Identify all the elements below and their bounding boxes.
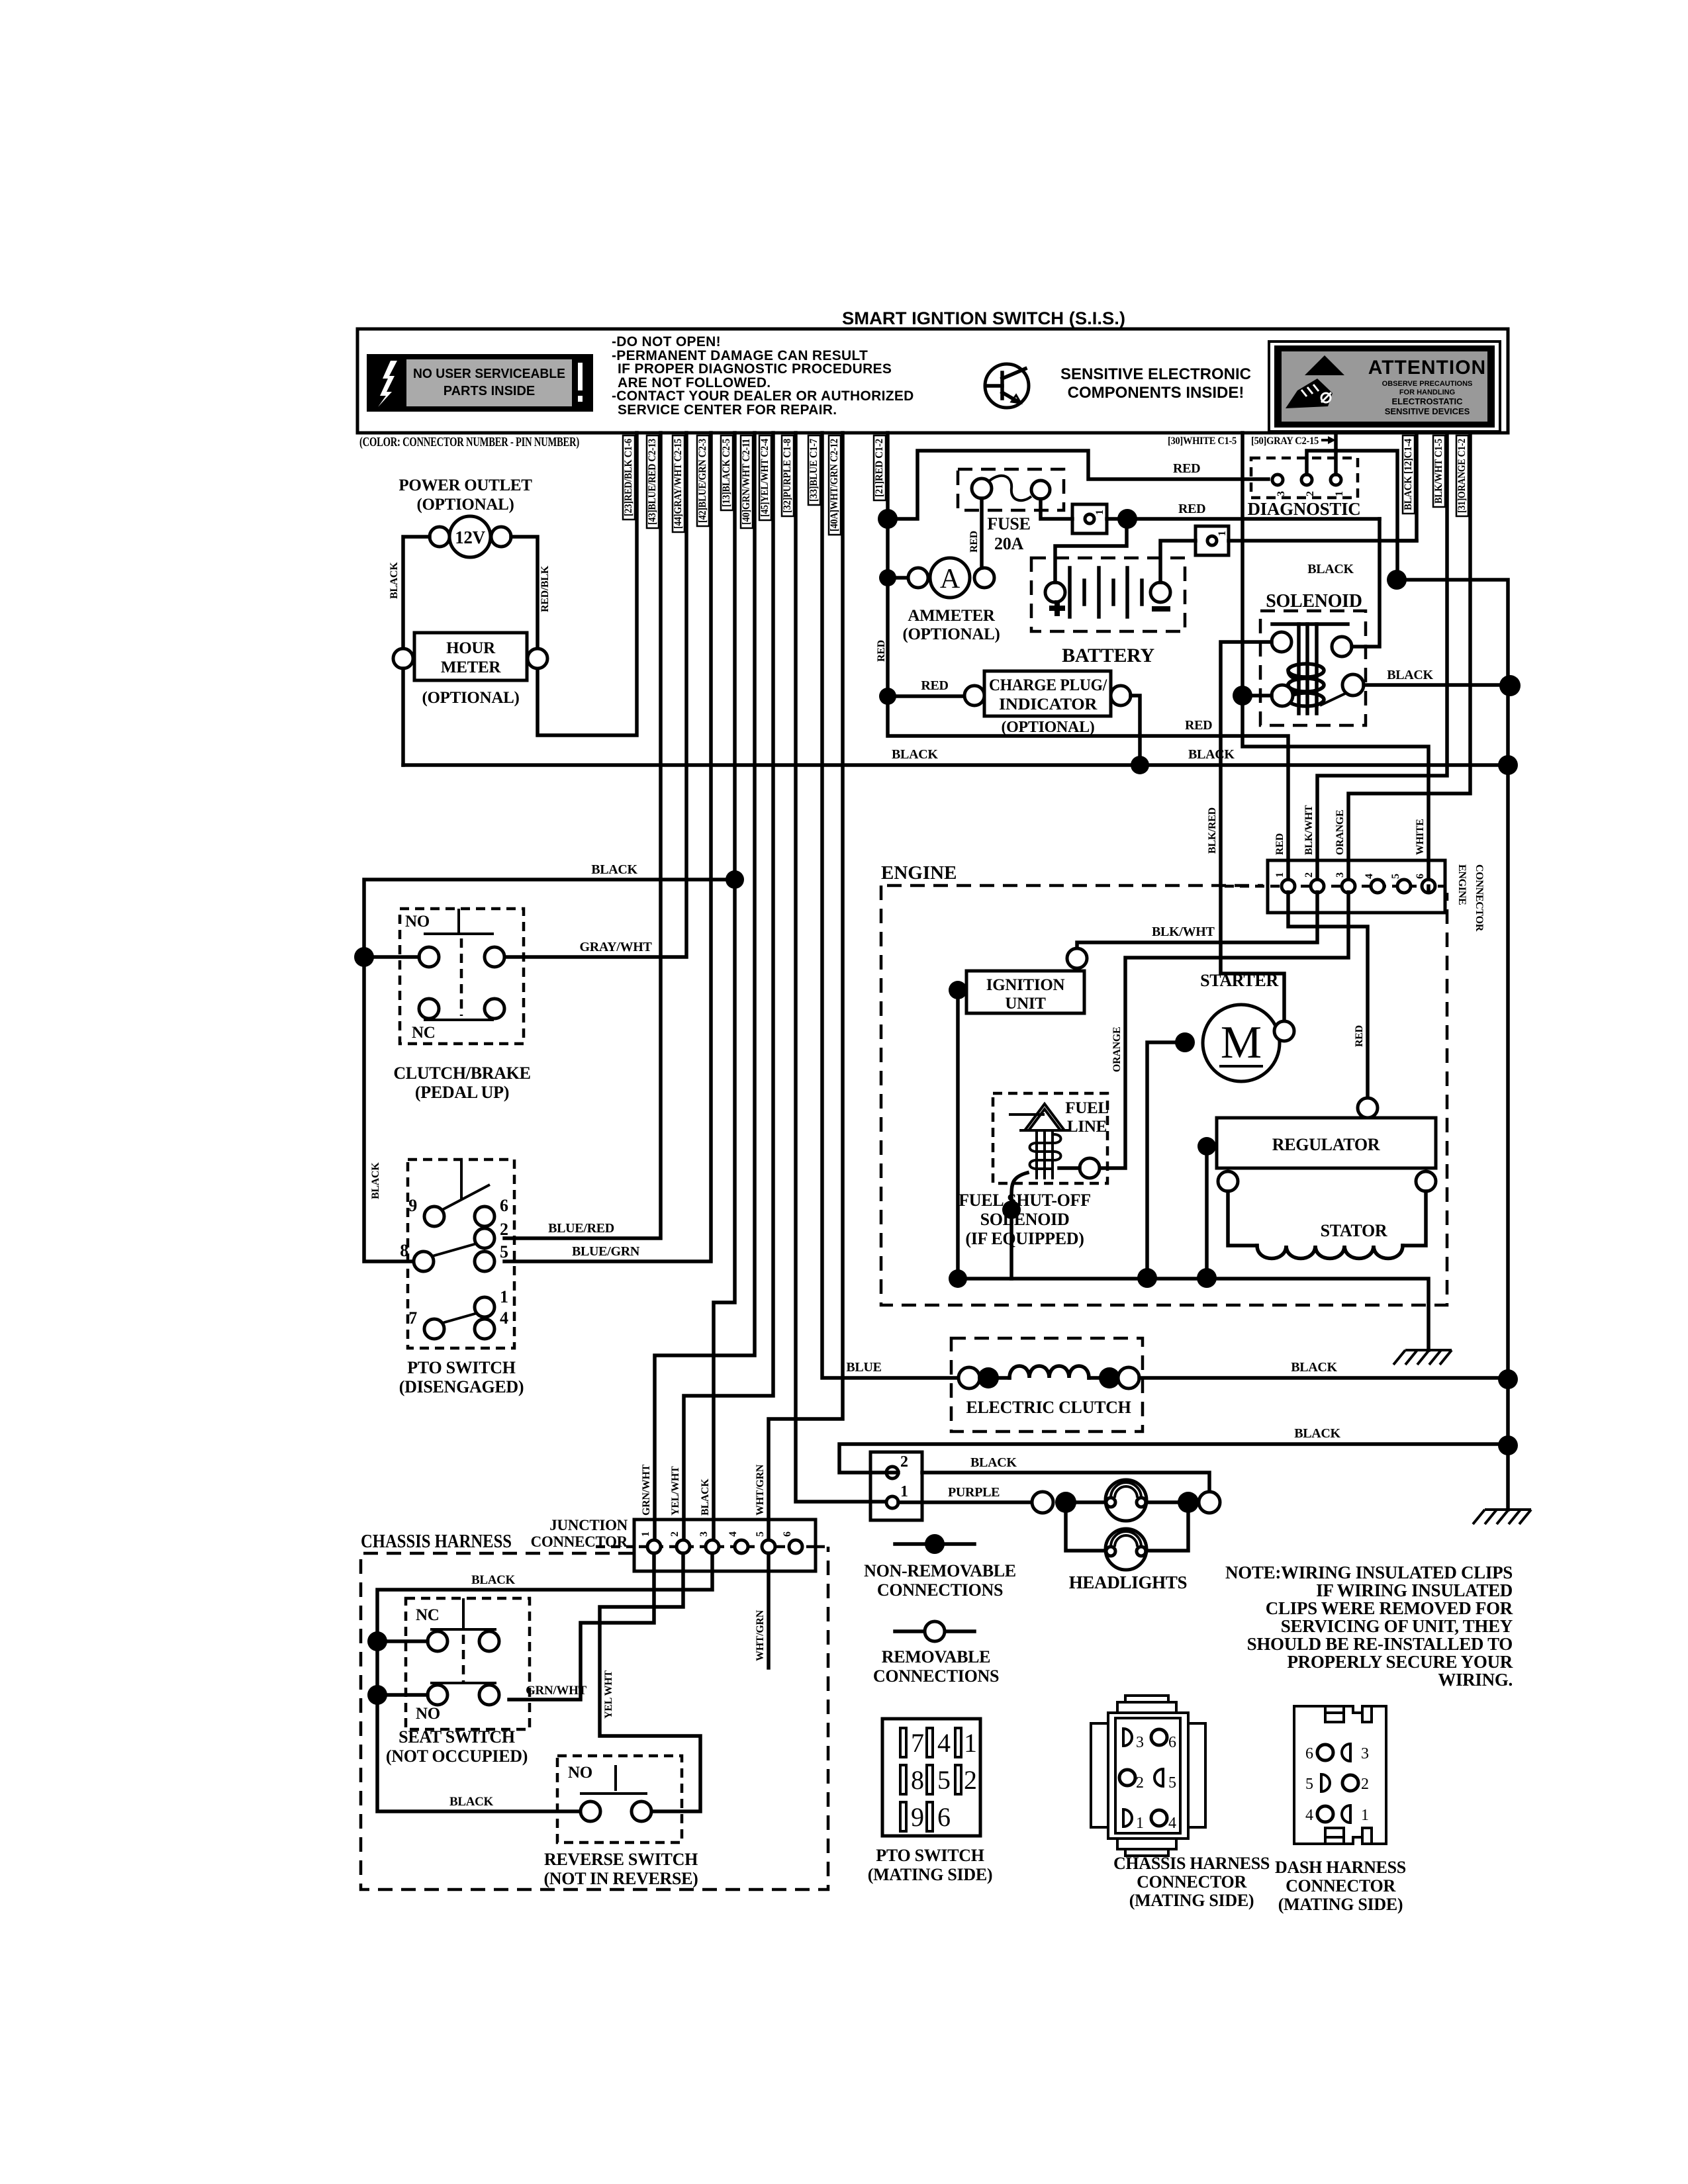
pto mating slot 1 bbox=[955, 1728, 961, 1757]
svg-text:INDICATOR: INDICATOR bbox=[999, 696, 1098, 713]
svg-text:NOTE:WIRING INSULATED CLIPS: NOTE:WIRING INSULATED CLIPS bbox=[1225, 1563, 1513, 1582]
svg-text:5: 5 bbox=[1168, 1774, 1176, 1792]
PTO arm 8-2 bbox=[432, 1244, 477, 1256]
center dashed bbox=[462, 1635, 465, 1684]
ground symbol right bus bbox=[1473, 1510, 1531, 1524]
svg-text:7: 7 bbox=[408, 1308, 417, 1328]
PTO pin 5 bbox=[475, 1251, 494, 1271]
headlight right open terminal bbox=[1199, 1492, 1220, 1513]
regulator bottom-left terminal bbox=[1218, 1171, 1238, 1191]
PTO pin 9 bbox=[424, 1206, 444, 1226]
seat switch NO contacts bbox=[428, 1685, 447, 1705]
wire lamp2 branch bbox=[1066, 1502, 1107, 1551]
wire ignition dot to ground bus bbox=[956, 990, 960, 1279]
svg-text:CHASSIS HARNESS: CHASSIS HARNESS bbox=[1113, 1854, 1270, 1873]
fuse left circle bbox=[972, 478, 992, 498]
junction pin 6 bbox=[789, 1540, 802, 1553]
clutch coil bbox=[999, 1376, 1009, 1380]
svg-text:3: 3 bbox=[1335, 872, 1346, 878]
svg-text:BATTERY: BATTERY bbox=[1062, 645, 1154, 666]
transistor symbol bbox=[985, 364, 1029, 408]
svg-text:3: 3 bbox=[698, 1531, 710, 1537]
svg-text:2: 2 bbox=[964, 1765, 977, 1795]
svg-text:5: 5 bbox=[1305, 1776, 1313, 1793]
wire clutch to right bus / BLACK bbox=[1139, 1376, 1508, 1380]
wire w8 PURPLE C1-8 bbox=[796, 433, 887, 1502]
svg-text:PTO SWITCH: PTO SWITCH bbox=[407, 1358, 515, 1377]
svg-text:2: 2 bbox=[1136, 1774, 1144, 1792]
wire fuse right down to red rail bbox=[1041, 499, 1072, 519]
wire dot to solenoid bottom-left bbox=[1243, 694, 1272, 698]
svg-text:HEADLIGHTS: HEADLIGHTS bbox=[1069, 1572, 1188, 1592]
svg-text:(COLOR: CONNECTOR NUMBER - PIN: (COLOR: CONNECTOR NUMBER - PIN NUMBER) bbox=[359, 435, 579, 449]
svg-text:(OPTIONAL): (OPTIONAL) bbox=[416, 496, 514, 514]
svg-text:ATTENTION: ATTENTION bbox=[1368, 357, 1486, 379]
svg-text:LINE: LINE bbox=[1067, 1118, 1107, 1136]
svg-text:CLUTCH/BRAKE: CLUTCH/BRAKE bbox=[393, 1064, 530, 1083]
svg-text:REMOVABLE: REMOVABLE bbox=[882, 1647, 990, 1666]
svg-text:[32]PURPLE C1-8: [32]PURPLE C1-8 bbox=[782, 439, 793, 513]
svg-text:SEAT SWITCH: SEAT SWITCH bbox=[399, 1727, 515, 1747]
svg-text:IF WIRING INSULATED: IF WIRING INSULATED bbox=[1316, 1580, 1513, 1600]
clutch left open terminal bbox=[959, 1367, 980, 1388]
svg-text:FUEL SHUT-OFF: FUEL SHUT-OFF bbox=[959, 1191, 1091, 1210]
svg-text:[43]BLUE/RED C2-13: [43]BLUE/RED C2-13 bbox=[647, 439, 658, 525]
headlight left open terminal bbox=[1032, 1492, 1053, 1513]
svg-text:(IF EQUIPPED): (IF EQUIPPED) bbox=[965, 1229, 1084, 1248]
reverse switch contacts bbox=[581, 1801, 600, 1821]
headlight connector pin 1 bbox=[886, 1496, 898, 1508]
warning text block bbox=[612, 334, 914, 418]
svg-text:(MATING SIDE): (MATING SIDE) bbox=[1129, 1891, 1254, 1910]
svg-text:AMMETER: AMMETER bbox=[908, 607, 995, 625]
clutch/brake NC contacts bbox=[419, 999, 439, 1019]
wire w6 GRN/WHT C2-11 bbox=[655, 433, 755, 1540]
svg-text:REGULATOR: REGULATOR bbox=[1272, 1135, 1380, 1154]
wire w9 BLUE C1-7 bbox=[822, 433, 959, 1378]
wire starter left to ground bus bbox=[1147, 1042, 1185, 1278]
battery plus terminal bbox=[1045, 582, 1065, 602]
svg-text:YEL/WHT: YEL/WHT bbox=[670, 1466, 681, 1516]
svg-text:[33]BLUE C1-7: [33]BLUE C1-7 bbox=[808, 439, 820, 502]
junction dot w11 RED upper bbox=[878, 509, 898, 529]
pto mating slot 7 bbox=[900, 1728, 906, 1757]
wire engine pin3 ORANGE to fuel solenoid bbox=[1100, 892, 1348, 1168]
svg-text:NO: NO bbox=[416, 1705, 440, 1723]
svg-text:STATOR: STATOR bbox=[1321, 1221, 1387, 1240]
headlight left dot bbox=[1055, 1492, 1076, 1513]
svg-text:BLACK: BLACK bbox=[700, 1479, 711, 1516]
charge plug left terminal bbox=[964, 686, 984, 705]
diagnostic pin 2 bbox=[1301, 475, 1312, 485]
svg-text:FUEL: FUEL bbox=[1065, 1099, 1108, 1117]
solenoid top-left terminal bbox=[1272, 632, 1291, 652]
svg-text:5: 5 bbox=[500, 1242, 508, 1261]
svg-text:(DISENGAGED): (DISENGAGED) bbox=[399, 1377, 524, 1396]
reverse switch plunger bbox=[614, 1765, 617, 1791]
svg-text:SOLENOID: SOLENOID bbox=[1266, 591, 1362, 612]
svg-text:[31]ORANGE C1-2: [31]ORANGE C1-2 bbox=[1456, 439, 1468, 513]
ammeter circle A bbox=[930, 558, 970, 598]
junction pin 5 bbox=[762, 1540, 775, 1553]
fuel solenoid left dot bbox=[1002, 1201, 1021, 1219]
dash harness connector drawing bbox=[1294, 1706, 1386, 1844]
wire junction pin2 YEL/WHT to reverse bbox=[600, 1553, 700, 1811]
wire junction pin5 WHT/GRN stub bbox=[767, 1553, 771, 1668]
black wire to right bus bbox=[1397, 580, 1508, 1510]
battery minus terminal bbox=[1150, 582, 1170, 602]
right wire labels bbox=[1403, 435, 1468, 516]
svg-text:ENGINE: ENGINE bbox=[1456, 864, 1468, 905]
wire power outlet left / BLACK bbox=[403, 537, 430, 649]
svg-text:20A: 20A bbox=[994, 534, 1023, 553]
svg-text:YEL WHT: YEL WHT bbox=[603, 1670, 614, 1719]
wire pin2 black to headlights bbox=[922, 1473, 1209, 1491]
svg-text:CLIPS WERE REMOVED FOR: CLIPS WERE REMOVED FOR bbox=[1266, 1598, 1513, 1618]
svg-text:(MATING SIDE): (MATING SIDE) bbox=[868, 1865, 992, 1884]
svg-text:4: 4 bbox=[1168, 1815, 1176, 1832]
junction dot w11 RED ammeter bbox=[879, 569, 896, 586]
fuse right circle bbox=[1031, 480, 1050, 499]
chassis connector pins bbox=[1119, 1729, 1176, 1832]
svg-text:SMART IGNTION SWITCH (S.I.S.): SMART IGNTION SWITCH (S.I.S.) bbox=[842, 308, 1125, 328]
wire w10 WHT/GRN C2-12 bbox=[769, 433, 843, 1540]
svg-text:PURPLE: PURPLE bbox=[948, 1485, 1000, 1500]
clutch/brake left dot bbox=[354, 947, 374, 967]
svg-text:POWER OUTLET: POWER OUTLET bbox=[399, 477, 532, 494]
PTO pin 6 bbox=[475, 1206, 494, 1226]
stator winding bbox=[1228, 1191, 1257, 1246]
svg-text:FUSE: FUSE bbox=[987, 514, 1030, 533]
svg-text:ORANGE: ORANGE bbox=[1111, 1027, 1123, 1072]
electric clutch dashed box bbox=[951, 1338, 1143, 1432]
junction dot w5/black bbox=[726, 870, 744, 889]
dash connector pins bbox=[1305, 1744, 1369, 1824]
regulator bottom-right terminal bbox=[1416, 1171, 1436, 1191]
svg-text:WHITE: WHITE bbox=[1415, 819, 1426, 855]
svg-text:2: 2 bbox=[900, 1453, 908, 1471]
clutch/brake NO plunger bbox=[457, 909, 460, 934]
svg-text:NO USER SERVICEABLE: NO USER SERVICEABLE bbox=[413, 367, 565, 381]
headlight connector box bbox=[870, 1452, 922, 1520]
solenoid internals bbox=[1272, 624, 1348, 713]
svg-text:NON-REMOVABLE: NON-REMOVABLE bbox=[864, 1561, 1016, 1580]
removable connector square 1 bbox=[1072, 504, 1107, 533]
ground symbol engine bbox=[1393, 1350, 1452, 1365]
junction connector box bbox=[634, 1520, 816, 1571]
svg-text:6: 6 bbox=[782, 1531, 793, 1537]
wire to junction dot bbox=[1107, 517, 1380, 521]
svg-text:ELECTRIC CLUTCH: ELECTRIC CLUTCH bbox=[966, 1398, 1131, 1417]
PTO switch dashed box bbox=[408, 1160, 514, 1348]
pto mating slot 8 bbox=[900, 1765, 906, 1794]
charge plug box bbox=[984, 671, 1111, 716]
svg-text:4: 4 bbox=[937, 1728, 951, 1758]
wire w1 RED/BLK C1-6 bbox=[538, 433, 637, 735]
starter right terminal bbox=[1274, 1021, 1294, 1041]
svg-text:5: 5 bbox=[1390, 874, 1401, 879]
fuel line symbol bbox=[1009, 1104, 1070, 1179]
ammeter left terminal bbox=[908, 568, 928, 588]
wire w3 GRAY/WHT C2-15 bbox=[504, 433, 686, 957]
svg-text:1: 1 bbox=[1094, 510, 1105, 515]
PTO switch mating side box bbox=[882, 1719, 980, 1836]
svg-text:4: 4 bbox=[1364, 874, 1375, 879]
svg-text:NO: NO bbox=[405, 913, 430, 931]
clutch/brake dashed box bbox=[400, 909, 524, 1044]
wire solenoid top-right to red rail bbox=[1352, 519, 1380, 647]
svg-text:2: 2 bbox=[500, 1220, 508, 1239]
wire w11 RED C1-2 bbox=[888, 433, 1288, 880]
svg-text:ORANGE: ORANGE bbox=[1335, 810, 1346, 855]
svg-text:DASH HARNESS: DASH HARNESS bbox=[1275, 1858, 1406, 1877]
regulator box bbox=[1217, 1118, 1436, 1168]
diagnostic dashed box bbox=[1251, 458, 1358, 498]
svg-text:5: 5 bbox=[937, 1765, 951, 1795]
svg-text:IF PROPER DIAGNOSTIC PROCEDURE: IF PROPER DIAGNOSTIC PROCEDURES bbox=[618, 361, 892, 377]
svg-text:STARTER: STARTER bbox=[1200, 971, 1278, 990]
clutch right dot bbox=[1099, 1367, 1120, 1388]
solenoid bottom-left terminal bbox=[1272, 685, 1293, 706]
starter motor circle bbox=[1203, 1005, 1280, 1081]
clutch right open terminal bbox=[1118, 1367, 1139, 1388]
wire engine pin1 RED to regulator bbox=[1288, 892, 1368, 1098]
svg-text:1: 1 bbox=[1334, 491, 1345, 496]
pto mating slot 5 bbox=[927, 1765, 933, 1794]
svg-text:NC: NC bbox=[412, 1024, 436, 1042]
svg-text:UNIT: UNIT bbox=[1005, 995, 1046, 1013]
pto mating slot 2 bbox=[955, 1765, 961, 1794]
engine connector pins bbox=[1274, 872, 1435, 893]
svg-text:2: 2 bbox=[1303, 872, 1315, 878]
svg-text:BLACK: BLACK bbox=[591, 862, 637, 877]
wire fuse left to ammeter / RED bbox=[980, 498, 984, 568]
svg-text:CONNECTOR: CONNECTOR bbox=[1474, 864, 1485, 932]
svg-text:(MATING SIDE): (MATING SIDE) bbox=[1278, 1895, 1403, 1914]
wire to black jog bbox=[1229, 433, 1417, 541]
svg-text:[21]RED C1-2: [21]RED C1-2 bbox=[874, 439, 885, 497]
wire hour meter left down to black bus bbox=[401, 668, 405, 765]
junction pin 4 bbox=[735, 1540, 748, 1553]
PTO pin 7 bbox=[424, 1319, 444, 1339]
svg-text:1: 1 bbox=[1274, 872, 1286, 878]
svg-text:[45]YEL/WHT C2-4: [45]YEL/WHT C2-4 bbox=[759, 439, 771, 517]
svg-text:BLACK: BLACK bbox=[389, 562, 400, 599]
regulator top terminal bbox=[1358, 1098, 1378, 1118]
legend non-removable bbox=[895, 1542, 974, 1546]
solenoid switch arm bbox=[1320, 693, 1346, 705]
power outlet 12V circle bbox=[449, 516, 491, 557]
svg-text:COMPONENTS INSIDE!: COMPONENTS INSIDE! bbox=[1068, 384, 1244, 402]
svg-text:9: 9 bbox=[911, 1802, 924, 1832]
solenoid bottom-right terminal bbox=[1342, 674, 1364, 696]
center dashed line bbox=[460, 938, 463, 1016]
svg-text:[50]GRAY C2-15: [50]GRAY C2-15 bbox=[1251, 435, 1319, 447]
S.I.S. outer box bbox=[357, 329, 1508, 433]
svg-text:RED: RED bbox=[1173, 461, 1200, 476]
PTO pin 8 bbox=[414, 1251, 434, 1271]
svg-text:CHASSIS HARNESS: CHASSIS HARNESS bbox=[361, 1531, 512, 1552]
svg-text:RED: RED bbox=[1185, 718, 1212, 733]
PTO pin 2 bbox=[475, 1228, 494, 1248]
svg-text:-DO NOT OPEN!: -DO NOT OPEN! bbox=[612, 334, 721, 349]
battery plates bbox=[1070, 568, 1142, 617]
engine connector dashed line through pins bbox=[1225, 885, 1445, 888]
svg-text:BLACK: BLACK bbox=[370, 1162, 381, 1199]
svg-text:ENGINE: ENGINE bbox=[881, 862, 957, 884]
wire regulator dot to ground bus bbox=[1205, 1146, 1209, 1278]
svg-text:(OPTIONAL): (OPTIONAL) bbox=[1001, 719, 1094, 736]
wire power outlet right / RED/BLK bbox=[511, 537, 538, 649]
wire w5 BLACK C2-5 upper bbox=[714, 433, 735, 1540]
svg-text:5: 5 bbox=[755, 1531, 766, 1537]
svg-text:WHT/GRN: WHT/GRN bbox=[755, 1610, 766, 1661]
fuel solenoid right terminal bbox=[1080, 1158, 1100, 1178]
svg-text:1: 1 bbox=[900, 1483, 908, 1500]
svg-text:2: 2 bbox=[669, 1531, 680, 1537]
svg-text:GRAY/WHT: GRAY/WHT bbox=[579, 940, 652, 954]
svg-text:SERVICE CENTER FOR REPAIR.: SERVICE CENTER FOR REPAIR. bbox=[618, 402, 837, 418]
svg-text:GRN/WHT: GRN/WHT bbox=[526, 1684, 586, 1698]
svg-text:4: 4 bbox=[500, 1308, 508, 1328]
chassis harness dashed box bbox=[361, 1547, 828, 1889]
svg-text:BLK/WHT: BLK/WHT bbox=[1152, 925, 1215, 939]
wire bundle labels bbox=[623, 435, 886, 535]
svg-text:8: 8 bbox=[400, 1241, 408, 1260]
PTO pin 1 bbox=[475, 1297, 494, 1317]
svg-text:JUNCTION: JUNCTION bbox=[549, 1517, 628, 1533]
wire BLK/WHT C1-5 from box to engine pin2 bbox=[1317, 433, 1447, 880]
svg-text:RED: RED bbox=[876, 640, 887, 662]
svg-text:6: 6 bbox=[1415, 874, 1426, 879]
PTO pin 4 bbox=[475, 1319, 494, 1339]
svg-text:4: 4 bbox=[727, 1531, 739, 1537]
svg-text:[13]BLACK C2-5: [13]BLACK C2-5 bbox=[721, 439, 732, 507]
seat switch NC contacts bbox=[428, 1631, 447, 1651]
wire engine pin6 white below bbox=[1427, 886, 1430, 892]
svg-text:6: 6 bbox=[500, 1196, 508, 1215]
svg-text:RED/BLK: RED/BLK bbox=[539, 565, 551, 612]
svg-text:METER: METER bbox=[441, 659, 501, 676]
engine ground bus bbox=[958, 1279, 1429, 1350]
dot on black bus at right bbox=[1498, 755, 1518, 775]
svg-text:RED: RED bbox=[921, 678, 948, 693]
ammeter right terminal bbox=[974, 568, 994, 588]
svg-text:SOLENOID: SOLENOID bbox=[980, 1210, 1070, 1229]
wire 31 ORANGE C1-2 from box to engine pin3 bbox=[1348, 433, 1470, 880]
svg-text:BLACK: BLACK bbox=[1188, 747, 1235, 762]
wire diagnostic pin2 up-left bbox=[1307, 451, 1397, 580]
svg-text:BLACK: BLACK bbox=[1307, 562, 1354, 576]
svg-text:(NOT IN REVERSE): (NOT IN REVERSE) bbox=[543, 1869, 698, 1888]
svg-text:GRN/WHT: GRN/WHT bbox=[641, 1464, 652, 1516]
svg-text:WHT/GRN: WHT/GRN bbox=[755, 1464, 766, 1516]
PTO arm 9 bbox=[442, 1185, 490, 1210]
svg-text:SENSITIVE ELECTRONIC: SENSITIVE ELECTRONIC bbox=[1060, 365, 1251, 383]
wire 30 WHITE from box to solenoid dot bbox=[1243, 433, 1429, 880]
seat switch dashed box bbox=[406, 1598, 530, 1729]
regulator left dot bbox=[1197, 1137, 1216, 1156]
svg-text:CONNECTOR: CONNECTOR bbox=[1137, 1872, 1246, 1891]
svg-text:[42]BLUE/GRN C2-3: [42]BLUE/GRN C2-3 bbox=[697, 439, 708, 523]
wire lamp1 right bbox=[1146, 1500, 1178, 1504]
svg-text:2: 2 bbox=[1305, 491, 1316, 496]
wire battery minus up right to black junction bbox=[1160, 541, 1196, 582]
svg-text:6: 6 bbox=[937, 1802, 951, 1832]
svg-text:4: 4 bbox=[1305, 1807, 1313, 1824]
svg-text:(PEDAL UP): (PEDAL UP) bbox=[415, 1083, 509, 1102]
svg-text:7: 7 bbox=[911, 1728, 924, 1758]
wire pin2 black to bus bbox=[839, 1444, 1508, 1473]
svg-text:[40]GRN/WHT C2-11: [40]GRN/WHT C2-11 bbox=[741, 439, 752, 525]
pto mating slot 4 bbox=[927, 1728, 933, 1757]
svg-text:BLUE/GRN: BLUE/GRN bbox=[572, 1244, 640, 1259]
svg-text:BLUE: BLUE bbox=[846, 1360, 881, 1375]
svg-text:(OPTIONAL): (OPTIONAL) bbox=[902, 625, 1000, 643]
svg-text:1: 1 bbox=[964, 1728, 977, 1758]
seat left dots bbox=[367, 1631, 387, 1651]
black bus horizontal bbox=[403, 763, 1508, 767]
hour meter box bbox=[414, 633, 527, 680]
svg-text:RED: RED bbox=[1178, 502, 1205, 516]
pto mating slot 6 bbox=[927, 1802, 933, 1831]
wire junction pin1 GRN/WHT to seat NO bbox=[509, 1553, 654, 1700]
diagnostic pin 1 bbox=[1331, 475, 1341, 485]
junction dot red rail bbox=[1117, 509, 1137, 529]
svg-text:HOUR: HOUR bbox=[446, 639, 496, 657]
svg-text:SERVICING OF UNIT, THEY: SERVICING OF UNIT, THEY bbox=[1281, 1616, 1513, 1636]
svg-text:8: 8 bbox=[911, 1765, 924, 1795]
junction connector dashed line bbox=[596, 1545, 634, 1549]
chassis harness connector drawing bbox=[1091, 1696, 1205, 1856]
junction dot w11 RED charge plug bbox=[879, 688, 896, 705]
headlight connector pin 2 bbox=[886, 1467, 898, 1479]
svg-text:9: 9 bbox=[408, 1196, 417, 1215]
svg-text:6: 6 bbox=[1168, 1734, 1176, 1751]
wire w11 dot to charge plug bbox=[888, 694, 964, 698]
solenoid top-right terminal bbox=[1332, 637, 1352, 657]
svg-text:RED: RED bbox=[968, 531, 980, 553]
removable connector square 2 bbox=[1196, 526, 1229, 555]
wire engine pin2 BLK/WHT to ignition unit bbox=[1077, 892, 1317, 948]
PTO internal stem bbox=[460, 1160, 463, 1199]
svg-text:CONNECTOR: CONNECTOR bbox=[1286, 1876, 1395, 1895]
svg-text:RED: RED bbox=[1274, 833, 1286, 855]
svg-text:CONNECTIONS: CONNECTIONS bbox=[873, 1666, 999, 1686]
svg-text:BLK/WHT: BLK/WHT bbox=[1303, 805, 1315, 855]
wire solenoid top-left to blk/red bbox=[1221, 642, 1284, 1021]
headlight right dot bbox=[1178, 1492, 1199, 1513]
clutch left dot bbox=[978, 1367, 999, 1388]
svg-text:SENSITIVE DEVICES: SENSITIVE DEVICES bbox=[1385, 406, 1470, 416]
svg-text:1: 1 bbox=[1136, 1815, 1144, 1832]
svg-text:[30]WHITE C1-5: [30]WHITE C1-5 bbox=[1168, 435, 1237, 447]
ignition unit left dot bbox=[949, 981, 967, 999]
svg-text:BLUE/RED: BLUE/RED bbox=[548, 1221, 614, 1236]
svg-text:PTO SWITCH: PTO SWITCH bbox=[876, 1846, 984, 1865]
hour meter right terminal bbox=[528, 649, 547, 668]
svg-text:[44]GRAY/WHT C2-15: [44]GRAY/WHT C2-15 bbox=[673, 439, 684, 529]
svg-text:[40A]WHT/GRN C2-12: [40A]WHT/GRN C2-12 bbox=[829, 439, 840, 531]
wire red branch to diagnostic bbox=[888, 451, 1268, 519]
svg-text:DIAGNOSTIC: DIAGNOSTIC bbox=[1247, 499, 1360, 519]
svg-text:BLACK: BLACK bbox=[1294, 1426, 1340, 1441]
svg-text:BLACK: BLACK bbox=[970, 1455, 1017, 1470]
wire pin1 purple to headlights bbox=[898, 1500, 1032, 1504]
pto mating slot 9 bbox=[900, 1802, 906, 1831]
wire w7 YEL/WHT C2-4 bbox=[684, 433, 773, 1540]
fuse dashed box bbox=[958, 469, 1064, 510]
